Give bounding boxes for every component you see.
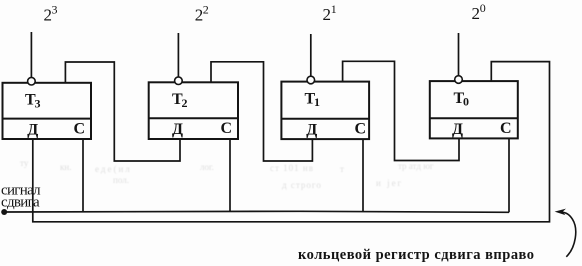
svg-text:ст 101 нв: ст 101 нв [270,163,314,173]
svg-text:еде(ил: еде(ил [95,164,132,174]
svg-text:1: 1 [314,95,320,109]
svg-text:тр атд юг: тр атд юг [398,161,434,171]
wire: T0 output stem to 2^0 [458,33,460,76]
output circle of T2 [175,77,183,85]
flip-flop T1 box [281,82,369,140]
svg-text:кн.: кн. [60,162,71,172]
svg-text:С: С [500,120,512,137]
svg-text:лог.: лог. [200,162,214,172]
node label 2^1 [323,2,337,24]
wire: T3 output to D input of T2 [65,62,180,161]
svg-text:Д: Д [172,121,183,138]
svg-text:2: 2 [203,3,209,17]
wire: T3 C input to shift bus [82,139,84,212]
svg-text:0: 0 [463,95,469,109]
flip-flop T0 box [430,81,518,138]
wire: T1 output to D input of T0 [343,61,459,160]
svg-text:С: С [355,121,367,138]
wire: ring feedback T0 output to D input of T3 [33,62,550,222]
svg-text:кольцевой регистр сдвига впра: кольцевой регистр сдвига вправо [298,247,534,263]
node label 2^2 [195,3,209,25]
svg-text:пол.: пол. [113,175,129,185]
svg-text:и јег: и јег [376,178,403,188]
svg-text:1: 1 [331,2,337,16]
svg-text:сдвига: сдвига [1,195,40,211]
wire: T0 C input to shift bus [508,138,510,212]
wire: shift signal bus [4,211,509,212]
svg-text:3: 3 [52,3,58,17]
junction dot: shift signal input [1,209,7,215]
svg-text:2: 2 [182,96,188,110]
svg-text:0: 0 [480,1,486,15]
label: shift signal [1,182,41,210]
node label 2^0 [472,1,486,23]
svg-text:2: 2 [323,5,332,24]
svg-text:д строго: д строго [282,180,322,190]
output circle of T1 [307,76,315,84]
svg-text:Д: Д [27,121,38,138]
wire: T2 C input to shift bus [229,140,231,213]
arrow: curved pointer to feedback corner [555,209,576,257]
wire: T1 C input to shift bus [362,139,364,212]
output circle of T0 [455,76,463,84]
svg-text:С: С [221,120,233,137]
svg-text:т: т [340,164,344,174]
svg-text:3: 3 [35,96,41,110]
svg-text:ту: ту [20,158,29,168]
node label 2^3 [44,3,58,25]
svg-text:С: С [74,121,86,138]
wire: T3 output stem to 2^3 [30,32,32,77]
svg-text:Д: Д [452,121,463,138]
output circle of T3 [28,77,36,85]
wire: T2 output to D input of T1 [211,62,312,161]
svg-text:Д: Д [306,121,317,138]
svg-text:2: 2 [472,4,481,23]
flip-flop T3 box [3,83,92,139]
wire: T2 output stem to 2^2 [177,33,179,77]
wire: T1 output stem to 2^1 [310,34,312,76]
flip-flop T2 box [149,82,238,139]
